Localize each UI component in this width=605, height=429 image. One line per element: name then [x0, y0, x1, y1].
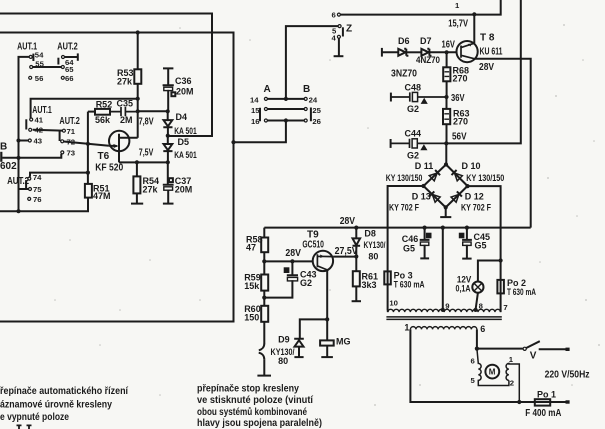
- wire T8 collector to 28V rail corner: [475, 59, 531, 228]
- contact 43: [28, 139, 31, 142]
- capacitor C44: [391, 139, 447, 148]
- capacitor C35: [110, 107, 138, 116]
- wire break to terminal: [263, 359, 265, 375]
- svg-text:76: 76: [33, 195, 42, 204]
- motor coil 6-5: [477, 349, 509, 386]
- svg-text:KF 520: KF 520: [95, 163, 123, 174]
- svg-text:270: 270: [453, 116, 468, 126]
- capacitor C48: [391, 92, 447, 101]
- diode D13: [429, 191, 440, 202]
- svg-text:55: 55: [35, 59, 44, 68]
- switch V blade: [526, 341, 540, 348]
- wire connector row1 up to Z contact 5: [286, 26, 338, 99]
- svg-text:2M: 2M: [120, 115, 133, 125]
- svg-text:56: 56: [35, 74, 44, 83]
- resistor R53: [134, 69, 141, 84]
- svg-text:26: 26: [312, 117, 321, 126]
- wire contact 43 to bus: [19, 140, 29, 142]
- junction contact 43 on left bus: [16, 138, 20, 142]
- svg-text:15,7V: 15,7V: [448, 18, 468, 29]
- svg-text:AUT.2: AUT.2: [7, 176, 29, 187]
- wire T9 base line: [264, 260, 313, 262]
- node D4/D5 junction: [166, 134, 170, 138]
- node bridge top: [444, 162, 448, 166]
- junction C43 top on base wire: [290, 259, 294, 263]
- svg-text:přepínače stop kresleny: přepínače stop kresleny: [197, 384, 299, 395]
- diode D6 zener: [398, 49, 408, 56]
- C44 marker triangle: [421, 145, 426, 150]
- wire gate riser R52-left / 74 / R51 column: [87, 112, 89, 184]
- svg-text:G5: G5: [475, 241, 487, 251]
- motor circle M: [485, 365, 499, 379]
- svg-text:KA 501: KA 501: [174, 126, 197, 136]
- svg-text:obou systémů kombinované: obou systémů kombinované: [197, 407, 307, 418]
- junction T8 emitter on 15.7V rail: [472, 12, 476, 16]
- svg-text:6: 6: [332, 11, 336, 20]
- junction C46 on 28V rail: [423, 226, 427, 230]
- resistor R60: [261, 306, 268, 322]
- connector row 1: [267, 98, 304, 100]
- wire 56V node down to bridge top: [445, 143, 447, 164]
- svg-text:73: 73: [67, 149, 76, 158]
- connector row 3: [267, 120, 304, 122]
- diode D4: [163, 111, 172, 135]
- svg-text:Z: Z: [346, 23, 352, 34]
- transformer secondary winding: [388, 309, 501, 312]
- terminal mains top: [566, 348, 570, 351]
- resistor R61: [353, 271, 360, 286]
- svg-text:D7: D7: [420, 36, 432, 46]
- svg-text:15: 15: [251, 106, 260, 115]
- contact 56: [29, 76, 32, 79]
- svg-text:3k3: 3k3: [362, 280, 377, 290]
- svg-text:56k: 56k: [95, 115, 111, 125]
- svg-text:C46: C46: [402, 234, 419, 244]
- wire D8 node down to R61: [355, 257, 357, 272]
- node 27.5V T9 emitter / D8 bottom: [354, 254, 358, 258]
- node bridge bottom: [444, 205, 448, 209]
- svg-text:1: 1: [455, 1, 460, 10]
- svg-text:4NZ70: 4NZ70: [416, 55, 440, 65]
- actuator bar AUT.1 top: [32, 54, 34, 61]
- svg-text:B: B: [303, 84, 310, 95]
- motor coil 1-2: [506, 363, 519, 402]
- junction lamp branch on Po2 wire: [499, 258, 503, 262]
- svg-text:25: 25: [312, 106, 321, 115]
- contact 16: [264, 119, 267, 122]
- svg-text:D6: D6: [398, 36, 410, 46]
- terminal bar D9: [294, 356, 303, 358]
- svg-text:150: 150: [244, 312, 259, 322]
- fuse Po2: [497, 280, 504, 294]
- svg-text:43: 43: [34, 137, 43, 146]
- junction R53 top on bus: [136, 30, 140, 34]
- node 7.5V / D5 bottom / C37: [166, 160, 170, 164]
- svg-text:C35: C35: [117, 99, 134, 109]
- contact 72: [61, 140, 64, 143]
- contact 41: [30, 118, 33, 121]
- contact 66: [61, 76, 64, 79]
- svg-text:80: 80: [278, 356, 288, 366]
- terminal bar C46: [420, 257, 429, 259]
- bottom-left cut symbol: [17, 425, 32, 429]
- svg-text:D4: D4: [176, 112, 188, 122]
- wire bridge bottom to terminal: [445, 207, 447, 217]
- wire Z contact 6 to top right rail: [341, 0, 501, 15]
- junction R54 top on 7.5V line: [135, 160, 139, 164]
- svg-text:C36: C36: [175, 76, 192, 86]
- svg-text:D8: D8: [364, 229, 376, 239]
- svg-text:AUT.2: AUT.2: [57, 41, 78, 52]
- svg-text:C44: C44: [405, 129, 422, 139]
- svg-text:75: 75: [33, 185, 42, 194]
- diode D8: [353, 228, 361, 257]
- wire 56V node to top right edge: [446, 0, 521, 143]
- svg-text:D 13: D 13: [412, 192, 431, 202]
- svg-text:20M: 20M: [176, 87, 194, 97]
- junction R52 riser on gate wire: [86, 142, 90, 146]
- contact 65: [61, 66, 64, 69]
- wire T8 emitter to rail: [473, 14, 475, 43]
- contact 73: [61, 151, 64, 154]
- junction transformer pin 9 tap: [441, 308, 445, 312]
- svg-text:1: 1: [404, 323, 409, 333]
- terminal bar MG: [321, 356, 333, 358]
- svg-text:KY 130/150: KY 130/150: [386, 173, 423, 183]
- switch Z contact circles: [337, 13, 341, 38]
- svg-text:7,8V: 7,8V: [139, 117, 154, 128]
- diode D12: [451, 191, 462, 202]
- diode D9: [294, 339, 304, 357]
- svg-text:5: 5: [471, 376, 476, 385]
- wire mains top after switch: [539, 348, 567, 350]
- node bridge right: [465, 184, 469, 188]
- svg-text:6: 6: [471, 356, 475, 365]
- wire 28V rail: [264, 227, 530, 229]
- svg-text:14: 14: [250, 95, 259, 104]
- svg-text:KY130/: KY130/: [364, 240, 386, 250]
- svg-text:0,1A: 0,1A: [456, 283, 471, 293]
- contact 71: [62, 129, 65, 132]
- terminal bar left edge: [0, 152, 2, 162]
- resistor R51: [85, 184, 92, 198]
- junction transformer pin 8 tap: [474, 308, 478, 312]
- switch Z actuator bar: [342, 27, 344, 36]
- terminal bar C48: [390, 93, 392, 102]
- contact 54: [29, 55, 32, 58]
- fuse Po3: [384, 271, 391, 284]
- svg-text:B: B: [0, 142, 7, 153]
- svg-text:G2: G2: [407, 104, 419, 114]
- svg-text:27,5V: 27,5V: [335, 246, 358, 257]
- wire contact 42 to 71: [33, 129, 63, 132]
- svg-text:T 8: T 8: [480, 33, 495, 44]
- terminal bar Z4: [334, 55, 344, 57]
- relay MG: [320, 340, 334, 345]
- contact 6 Z: [337, 13, 340, 16]
- terminal bar C37: [163, 203, 174, 205]
- T6 gate arrow: [113, 144, 118, 148]
- contact 55: [30, 66, 33, 69]
- svg-text:24: 24: [309, 95, 318, 104]
- terminal bar R61: [352, 300, 361, 302]
- junction row3 wire on bus: [231, 140, 235, 144]
- wire left edge terminal to contact 73: [2, 154, 61, 158]
- node 7.8V right / D4 top: [166, 109, 170, 113]
- svg-text:36V: 36V: [451, 93, 465, 104]
- actuator bar AUT.1 mid: [25, 119, 27, 129]
- svg-text:D 11: D 11: [415, 161, 434, 171]
- junction T9 collector / D9 / MG: [325, 317, 329, 321]
- svg-text:hlavy jsou spojena paralelně): hlavy jsou spojena paralelně): [197, 418, 322, 429]
- svg-text:27k: 27k: [117, 77, 133, 87]
- diode D5: [163, 136, 172, 163]
- terminal mains bottom: [566, 400, 570, 403]
- wire Z contact 4 to terminal: [338, 39, 340, 57]
- svg-text:ve stisknuté poloze (vinutí: ve stisknuté poloze (vinutí: [197, 395, 313, 406]
- C37 polarity square: [169, 178, 173, 182]
- capacitor C46: [420, 228, 430, 259]
- junction primary pin6 / motor coil 6 / switch V: [475, 347, 479, 351]
- wire contact 64 to end bar: [65, 56, 78, 58]
- svg-text:D9: D9: [278, 335, 290, 345]
- terminal bar C45: [462, 258, 471, 260]
- wire R58 from 28V rail: [263, 228, 265, 238]
- C43 polarity square: [285, 268, 289, 272]
- contact 4 Z: [337, 35, 340, 38]
- svg-text:28V: 28V: [285, 248, 301, 259]
- contact 25: [304, 108, 307, 111]
- svg-text:80: 80: [368, 251, 378, 261]
- junction left edge wire on left bus: [16, 156, 20, 160]
- wire 7.5V node: [119, 161, 168, 163]
- svg-text:74: 74: [33, 173, 42, 182]
- svg-text:15k: 15k: [244, 281, 260, 291]
- C45 polarity square: [460, 234, 464, 238]
- actuator bar AUT.2 mid: [59, 131, 61, 141]
- svg-text:MG: MG: [336, 336, 351, 346]
- svg-text:KY 130/150: KY 130/150: [466, 173, 504, 183]
- svg-text:28V: 28V: [479, 62, 494, 73]
- capacitor C43: [264, 261, 298, 297]
- wire T9 collector node to MG: [326, 319, 328, 340]
- transformer core: [386, 317, 501, 320]
- wire contact 74 to R51 column: [30, 173, 88, 177]
- C48 marker triangle: [422, 99, 427, 104]
- bridge arm bottom-left: [424, 186, 446, 207]
- junction wire B on left bus: [16, 209, 20, 213]
- bridge arm top-left: [424, 165, 447, 187]
- junction contact 74 / R51 top: [86, 171, 90, 175]
- svg-text:20M: 20M: [175, 185, 193, 195]
- terminal bar D6 left: [381, 48, 383, 57]
- svg-text:16: 16: [251, 117, 260, 126]
- svg-text:A: A: [264, 84, 271, 95]
- node 16V T8 base: [445, 50, 449, 54]
- svg-text:28V: 28V: [340, 216, 356, 227]
- wire D6 to D7: [406, 51, 421, 53]
- connector actuator bars: [260, 108, 311, 122]
- lamp 12V 0.1A: [472, 282, 483, 293]
- junction R58/R59/T9 base: [262, 259, 266, 263]
- bridge arm bottom-right: [446, 186, 468, 207]
- T9 emitter arrow: [320, 254, 324, 258]
- svg-text:e vypnuté poloze: e vypnuté poloze: [0, 412, 69, 423]
- terminal bar below R60: [257, 375, 271, 377]
- junction pin9 wire on 28V rail: [441, 226, 445, 230]
- wire T9 collector down: [326, 270, 328, 320]
- wire top rail to D4/D5 node: [0, 14, 212, 137]
- fuse Po1: [535, 399, 550, 405]
- capacitor C45: [462, 228, 472, 259]
- node 7.8V left: [136, 109, 140, 113]
- wire contact 41 up to R53 line: [31, 99, 138, 118]
- bridge arm top-right: [446, 165, 468, 187]
- terminal bar bridge bottom: [440, 216, 451, 218]
- svg-text:65: 65: [65, 65, 74, 74]
- resistor R59: [261, 275, 268, 291]
- svg-text:KU 611: KU 611: [480, 46, 503, 57]
- contact 74: [28, 177, 31, 180]
- C46 polarity square: [427, 234, 431, 238]
- capacitor C37: [163, 162, 174, 203]
- wire primary pin6 down: [476, 329, 478, 348]
- svg-text:27k: 27k: [143, 185, 159, 195]
- svg-text:1: 1: [509, 355, 514, 364]
- contact 42: [29, 128, 32, 131]
- svg-text:8: 8: [479, 302, 484, 311]
- contact 75: [29, 188, 32, 191]
- svg-text:GC510: GC510: [302, 239, 324, 250]
- svg-text:10: 10: [389, 299, 398, 308]
- svg-text:G2: G2: [407, 150, 419, 160]
- svg-text:G2: G2: [300, 278, 312, 288]
- terminal bar C44: [390, 139, 392, 148]
- resistor R68: [443, 67, 450, 81]
- terminal bar R54: [131, 203, 143, 205]
- transistor T6: [109, 131, 129, 151]
- wire pin10 lead: [387, 310, 389, 312]
- wire B bottom horizontal to R51: [0, 198, 88, 212]
- svg-text:220 V/50Hz: 220 V/50Hz: [545, 369, 590, 380]
- wire T9 emitter to D8 node: [333, 256, 356, 258]
- svg-text:T6: T6: [98, 151, 110, 162]
- T8 emitter arrow: [468, 44, 472, 47]
- wire R53 node down to 7.8V node: [137, 99, 139, 112]
- junction R59/R60/C43 bottom: [262, 296, 266, 300]
- svg-text:R52: R52: [96, 100, 113, 110]
- node 56V: [444, 141, 448, 145]
- wire lamp branch: [478, 261, 501, 282]
- contact 26: [304, 119, 307, 122]
- wire primary pin1 to bottom mains: [410, 329, 534, 402]
- contact 76: [28, 197, 31, 200]
- svg-text:KY 702 F: KY 702 F: [461, 202, 491, 212]
- junction R53 bottom / contact 41 wire: [136, 97, 140, 101]
- svg-text:7: 7: [503, 303, 507, 312]
- wire bridge left node to Po3 / pin 10: [388, 186, 424, 271]
- junction C45 on 28V rail: [465, 226, 469, 230]
- svg-text:54: 54: [35, 51, 44, 60]
- transistor T9: [313, 251, 333, 271]
- svg-text:G5: G5: [403, 243, 415, 253]
- svg-text:41: 41: [35, 116, 44, 125]
- svg-text:3NZ70: 3NZ70: [391, 69, 417, 80]
- transistor T8: [457, 41, 478, 62]
- wire 7.8V node down to T6 drain: [137, 111, 139, 138]
- diode D10: [451, 170, 462, 181]
- svg-text:T 630 mA: T 630 mA: [507, 287, 536, 297]
- break symbol below R60: [259, 344, 265, 360]
- svg-text:Po 1: Po 1: [537, 390, 556, 400]
- resistor R52: [95, 109, 110, 115]
- svg-text:D 12: D 12: [465, 192, 484, 202]
- svg-text:V: V: [530, 350, 537, 361]
- wire pin 9 to 28V rail: [442, 228, 444, 310]
- node 36V: [444, 95, 448, 99]
- svg-text:C48: C48: [405, 83, 422, 93]
- resistor R63: [443, 109, 450, 124]
- wire left vertical bus from contact 54 down to wire B: [19, 57, 30, 211]
- wire lamp to pin 8: [476, 293, 478, 310]
- svg-text:D 10: D 10: [462, 161, 481, 171]
- svg-text:F 400 mA: F 400 mA: [525, 408, 561, 419]
- wire 7.8V node horizontal: [138, 110, 168, 112]
- junction connector row1: [284, 97, 288, 101]
- svg-text:AUT.1: AUT.1: [32, 105, 52, 116]
- wire contact 55 to 65: [33, 66, 62, 68]
- junction motor coil 1 on mains bottom wire: [517, 400, 521, 404]
- contact 14: [264, 97, 267, 100]
- node bridge left: [421, 184, 425, 188]
- svg-text:47: 47: [246, 242, 256, 252]
- svg-text:6: 6: [480, 324, 485, 334]
- C36 polarity square: [171, 92, 175, 96]
- svg-text:16V: 16V: [442, 39, 456, 50]
- svg-text:D5: D5: [178, 137, 190, 147]
- wire D7 to T8 base: [429, 51, 456, 53]
- junction connector row3: [284, 118, 288, 122]
- resistor R58: [261, 238, 268, 253]
- svg-text:T 630 mA: T 630 mA: [394, 279, 425, 289]
- svg-text:áznamové úrovně kresleny: áznamové úrovně kresleny: [0, 400, 112, 411]
- wire bus dot to connector row3: [234, 122, 286, 142]
- actuator bar AUT.2 bottom: [25, 180, 27, 188]
- resistor R54: [133, 176, 140, 193]
- svg-text:47M: 47M: [93, 191, 111, 201]
- contact 5 Z: [338, 25, 341, 28]
- transformer primary winding: [410, 327, 476, 330]
- connector contact circles: [264, 97, 307, 122]
- svg-text:56V: 56V: [452, 132, 467, 143]
- wire T9 collector node to D9: [300, 319, 327, 338]
- scan speckles: [563, 24, 565, 26]
- svg-text:71: 71: [67, 127, 76, 136]
- contact 15: [264, 108, 267, 111]
- diode D11: [429, 170, 440, 181]
- connector row 2: [267, 108, 304, 110]
- svg-text:KY 702 F: KY 702 F: [389, 202, 419, 212]
- svg-text:602: 602: [0, 161, 17, 172]
- wire terminal to D6: [382, 51, 398, 53]
- svg-text:M: M: [489, 368, 496, 377]
- svg-text:řepínače automatického řízení: řepínače automatického řízení: [0, 386, 128, 397]
- wire contact 72 to T6 gate: [64, 142, 109, 146]
- svg-text:4: 4: [332, 33, 337, 42]
- actuator bar AUT.2 top: [57, 58, 59, 65]
- wire contact 75 to bus: [19, 188, 29, 190]
- contact 64: [62, 56, 65, 59]
